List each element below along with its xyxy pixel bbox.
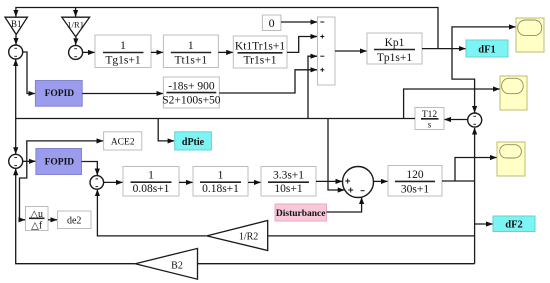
wire plant2 out to dF2 net bbox=[442, 180, 475, 182]
svg-text:1: 1 bbox=[188, 40, 194, 52]
svg-text:B1: B1 bbox=[11, 19, 22, 29]
svg-text:△f: △f bbox=[31, 220, 43, 231]
svg-text:Tt1s+1: Tt1s+1 bbox=[174, 55, 207, 67]
wire tie sum to T12 block bbox=[444, 119, 467, 121]
wire sum rect to Kp1 bbox=[335, 50, 367, 52]
wire turbine1 to reheat1 bbox=[218, 51, 233, 53]
wire governor1 to turbine1 bbox=[151, 51, 163, 53]
FOPID controller 2 bbox=[36, 149, 82, 175]
rate block du/df bbox=[26, 207, 49, 232]
wire dPtie line up into sum1 bbox=[15, 60, 17, 119]
wire du/df to de2 bbox=[48, 219, 57, 221]
svg-text:s: s bbox=[428, 120, 432, 130]
transfer fcn reheat2 (3.3s+1)/(10s+1) bbox=[261, 167, 316, 197]
wire branch dPtie down to area2 sum bbox=[328, 119, 344, 191]
wire feedback dF1 to top bbox=[16, 8, 438, 49]
svg-text:dF1: dF1 bbox=[478, 45, 496, 56]
wire dPtie line down into ACE2 sum bbox=[15, 119, 17, 154]
wire sum to governor2 bbox=[104, 181, 123, 183]
wire dF2 vertical down bbox=[474, 181, 476, 264]
wire branch to scope3 bbox=[455, 158, 497, 182]
integrator T12/s bbox=[415, 108, 444, 130]
svg-text:dF2: dF2 bbox=[505, 220, 523, 231]
wire filter to sum rect plus4 bbox=[219, 70, 317, 93]
gain 1/R1 bbox=[62, 17, 90, 37]
wire dF2 to 1/R2 bbox=[268, 235, 475, 237]
wire constant0 to sum rect minus1 bbox=[281, 21, 317, 23]
svg-text:Tr1s+1: Tr1s+1 bbox=[244, 55, 277, 67]
display ACE2 bbox=[104, 132, 142, 150]
wire governor2 to turbine2 bbox=[179, 181, 193, 183]
summing junction governor2 input bbox=[90, 176, 104, 190]
svg-text:-18s+ 900: -18s+ 900 bbox=[168, 81, 215, 93]
svg-text:dPtie: dPtie bbox=[182, 137, 205, 148]
transfer fcn (-18s+900)/(S2+100s+50) bbox=[162, 77, 221, 108]
transfer fcn plant2 120/(30s+1) bbox=[388, 166, 442, 197]
wire Kp1 out to dF1 bbox=[422, 48, 466, 50]
wire reheat2 to big sum bbox=[316, 180, 342, 182]
summing junction S2 (governor input) bbox=[69, 45, 83, 59]
source Disturbance bbox=[275, 204, 327, 221]
scope 3 bbox=[497, 142, 525, 176]
summing junction S1 (area1 ACE) bbox=[9, 45, 23, 59]
transfer fcn turbine2 1/(0.18s+1) bbox=[193, 167, 248, 197]
summing junction area2 load bbox=[343, 167, 374, 198]
wire ACE2 sum to FOPID2 bbox=[23, 160, 36, 162]
display de2 bbox=[58, 211, 92, 229]
svg-text:ACE2: ACE2 bbox=[111, 138, 135, 148]
svg-text:Kt1Tr1s+1: Kt1Tr1s+1 bbox=[235, 41, 285, 53]
wire branch to dF2 display bbox=[475, 223, 493, 225]
transfer fcn Kp1/(Tp1s+1) bbox=[367, 33, 422, 64]
wire dF2 up into tie sum bbox=[474, 128, 476, 181]
wire 1/R1 to sum2 bbox=[75, 37, 77, 45]
wire 1/R2 out to governor2 sum bbox=[97, 190, 206, 236]
wire branch to deadband du/df bbox=[20, 161, 27, 220]
svg-text:FOPID: FOPID bbox=[45, 157, 75, 167]
gain 1/R2 bbox=[207, 221, 268, 251]
transfer fcn turbine1 1/(Tt1s+1) bbox=[163, 35, 218, 68]
svg-text:B2: B2 bbox=[171, 261, 183, 272]
display dPtie bbox=[175, 132, 212, 150]
wire branch to ACE2 display bbox=[27, 141, 103, 161]
wire T12 out long dPtie line bbox=[16, 118, 415, 120]
wire tie feedback to sum rect minus3 bbox=[308, 56, 317, 118]
transfer fcn reheat1 (Kt1Tr1s+1)/(Tr1s+1) bbox=[233, 36, 287, 68]
svg-text:10s+1: 10s+1 bbox=[274, 183, 302, 195]
svg-text:1: 1 bbox=[120, 40, 126, 52]
svg-text:3.3s+1: 3.3s+1 bbox=[273, 170, 304, 182]
wire dF2 to B2 bbox=[198, 263, 475, 265]
scope 2 bbox=[500, 76, 527, 110]
wire FOPID1 to filter block bbox=[82, 93, 163, 95]
display dF2 bbox=[493, 216, 535, 232]
svg-text:1: 1 bbox=[218, 170, 224, 182]
constant 0 bbox=[262, 15, 281, 31]
wire FOPID2 out to sum bbox=[82, 162, 98, 176]
wire branch dPtie to scope2 bbox=[404, 89, 500, 119]
wire Disturbance to big sum bbox=[327, 198, 362, 213]
wire big sum to plant2 bbox=[374, 180, 388, 182]
scope 1 bbox=[516, 18, 544, 52]
gain B1 bbox=[5, 17, 27, 34]
FOPID controller 1 bbox=[35, 81, 82, 107]
display dF1 bbox=[466, 40, 508, 57]
wire branch dPtie to display dPtie bbox=[158, 119, 174, 141]
svg-text:0.08s+1: 0.08s+1 bbox=[133, 183, 170, 195]
svg-text:de2: de2 bbox=[67, 216, 81, 227]
sum block rectangle (4 inputs) bbox=[318, 17, 336, 85]
gain B2 bbox=[135, 248, 197, 279]
svg-text:FOPID: FOPID bbox=[45, 89, 75, 99]
svg-text:Tg1s+1: Tg1s+1 bbox=[105, 55, 140, 67]
transfer fcn governor2 1/(0.08s+1) bbox=[123, 167, 179, 197]
svg-text:Tp1s+1: Tp1s+1 bbox=[377, 52, 412, 64]
svg-text:1: 1 bbox=[148, 170, 154, 182]
wire B1 to sum1 bbox=[15, 35, 17, 45]
wire B2 out to ACE2 sum bbox=[16, 169, 136, 264]
summing junction tie (dF1-dF2) bbox=[468, 113, 482, 127]
svg-text:1/R2: 1/R2 bbox=[239, 232, 258, 243]
svg-text:30s+1: 30s+1 bbox=[401, 183, 429, 195]
svg-text:0: 0 bbox=[269, 16, 275, 30]
wire sum2 to governor bbox=[83, 51, 95, 53]
wire reheat1 to sum rect plus2 bbox=[287, 37, 317, 53]
svg-text:0.18s+1: 0.18s+1 bbox=[202, 183, 239, 195]
svg-text:S2+100s+50: S2+100s+50 bbox=[162, 94, 221, 106]
summing junction ACE2 (area2) bbox=[9, 154, 23, 168]
wire turbine2 to reheat2 bbox=[248, 181, 261, 183]
wire branch to scope1 bbox=[452, 27, 516, 49]
wire sum1 to FOPID1 bbox=[23, 52, 35, 94]
wire branch top to 1/R1 bbox=[75, 8, 77, 17]
svg-text:Kp1: Kp1 bbox=[385, 37, 405, 49]
transfer fcn governor1 1/(Tg1s+1) bbox=[95, 35, 151, 68]
svg-text:120: 120 bbox=[406, 169, 424, 181]
svg-text:Disturbance: Disturbance bbox=[276, 209, 326, 219]
svg-text:1/R1: 1/R1 bbox=[67, 19, 84, 29]
wire branch down to tie sum bbox=[452, 49, 475, 113]
